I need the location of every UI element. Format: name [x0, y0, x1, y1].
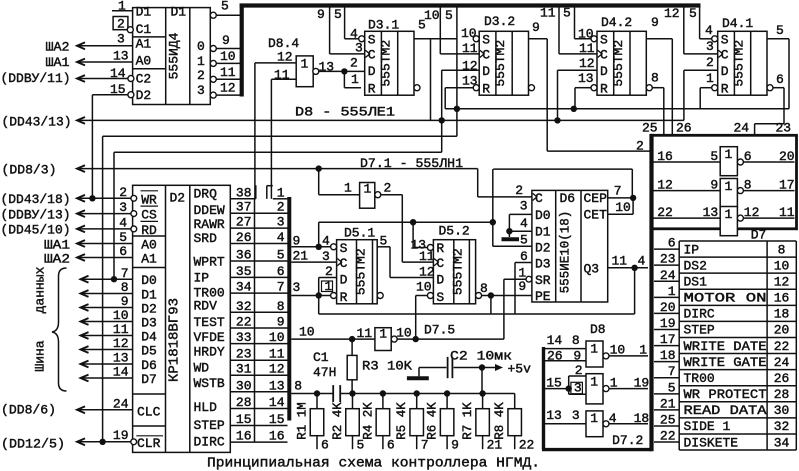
svg-text:R1 1M: R1 1M [296, 402, 310, 440]
svg-text:555ТМ2: 555ТМ2 [379, 40, 394, 87]
svg-text:6: 6 [520, 249, 528, 264]
D7 inverter row 22 [654, 217, 721, 219]
D4.1 S input [712, 36, 718, 42]
svg-text:данных: данных [33, 266, 48, 313]
resistor R3 [351, 339, 353, 355]
table stub 21 [654, 409, 679, 411]
svg-text:13: 13 [703, 205, 719, 220]
D5.1 S input [331, 244, 337, 250]
D4.1 bus drop 12 [683, 8, 685, 54]
data bus wire D5 [81, 346, 89, 353]
svg-text:47Н: 47Н [313, 365, 336, 380]
svg-text:16: 16 [774, 291, 790, 306]
svg-text:D: D [600, 64, 608, 79]
svg-text:23: 23 [660, 252, 676, 267]
D4.2 R input [591, 85, 597, 91]
svg-text:D2: D2 [141, 302, 157, 317]
D6 CET output [608, 213, 633, 215]
D4.1 Q output [767, 38, 789, 40]
D3.1 S input [359, 36, 365, 42]
svg-text:5: 5 [520, 233, 528, 248]
resistor R1 1M [316, 394, 318, 409]
svg-text:12: 12 [774, 274, 790, 289]
svg-text:HRDY: HRDY [194, 345, 225, 360]
svg-text:CLC: CLC [137, 404, 161, 419]
D3.1 C input [365, 50, 369, 57]
svg-text:1: 1 [344, 181, 352, 196]
svg-text:12: 12 [657, 178, 673, 193]
svg-text:D2: D2 [535, 241, 551, 256]
D2 RD pin [131, 226, 137, 232]
svg-text:D5.2: D5.2 [439, 224, 470, 239]
svg-text:RAWR: RAWR [194, 217, 225, 232]
svg-text:R5 4K: R5 4K [395, 402, 409, 440]
D3.2 R input [473, 85, 479, 91]
svg-text:R8 4K: R8 4K [493, 402, 507, 440]
svg-text:8: 8 [121, 280, 129, 295]
gate D7.2 output [609, 423, 648, 425]
svg-text:10: 10 [774, 258, 790, 273]
svg-text:17: 17 [660, 332, 676, 347]
svg-text:1: 1 [324, 279, 332, 294]
svg-text:C: C [535, 191, 543, 206]
svg-text:3: 3 [119, 200, 127, 215]
svg-text:5: 5 [710, 149, 718, 164]
svg-text:18: 18 [774, 307, 790, 322]
svg-text:2: 2 [706, 55, 714, 70]
D3.1 Qbar output [414, 85, 420, 91]
svg-text:DISKETE: DISKETE [684, 435, 739, 450]
svg-text:18: 18 [660, 348, 676, 363]
svg-text:(DD43/13): (DD43/13) [2, 115, 72, 130]
svg-text:555ТМ2: 555ТМ2 [611, 40, 626, 87]
data bus wire D2 [81, 304, 89, 311]
svg-text:13: 13 [113, 49, 129, 64]
svg-text:20: 20 [779, 149, 795, 164]
svg-text:(DDВУ/13): (DDВУ/13) [1, 207, 71, 222]
D6 Q3 output [608, 267, 648, 269]
svg-text:16: 16 [657, 149, 673, 164]
svg-text:9: 9 [651, 15, 659, 30]
svg-text:S: S [340, 241, 348, 256]
svg-text:S: S [436, 290, 444, 305]
svg-text:25: 25 [660, 412, 676, 427]
svg-text:DRQ: DRQ [194, 187, 218, 202]
svg-text:R2 4K: R2 4K [331, 402, 345, 440]
svg-text:D1: D1 [535, 225, 551, 240]
data bus wire D4 [81, 332, 89, 339]
svg-text:S: S [368, 33, 376, 48]
gate D8.4 [296, 56, 313, 87]
D5.1 R input [331, 293, 337, 299]
svg-text:10: 10 [220, 49, 236, 64]
D5.2 Qbar output 8 [476, 293, 482, 299]
svg-text:D5: D5 [141, 344, 157, 359]
svg-text:D4.1: D4.1 [722, 16, 753, 31]
svg-text:10: 10 [424, 8, 440, 23]
decoder D1 555ИД4 [133, 8, 211, 105]
D4.2 C input [598, 50, 602, 57]
D3.1 bus drop 9 [329, 8, 331, 54]
svg-text:0: 0 [197, 39, 205, 54]
svg-text:S: S [721, 33, 729, 48]
table stub 1 [654, 296, 679, 298]
svg-text:D: D [482, 64, 490, 79]
svg-text:9: 9 [451, 438, 459, 453]
svg-text:2: 2 [515, 183, 523, 198]
svg-text:1: 1 [725, 179, 733, 194]
svg-text:26: 26 [547, 349, 563, 364]
table stub 7 [654, 377, 679, 379]
svg-text:CLR: CLR [137, 436, 161, 451]
svg-text:WD: WD [194, 361, 210, 376]
svg-text:17: 17 [779, 178, 795, 193]
svg-text:1: 1 [590, 411, 598, 426]
inverter D7.5 output [397, 338, 504, 340]
svg-text:8: 8 [294, 379, 302, 394]
svg-text:24: 24 [774, 355, 790, 370]
svg-text:12: 12 [579, 56, 595, 71]
junction D5.1 R [316, 292, 322, 298]
svg-text:D8 - 555ЛЕ1: D8 - 555ЛЕ1 [295, 105, 395, 120]
svg-text:4: 4 [119, 215, 127, 230]
svg-text:5: 5 [563, 6, 571, 21]
gate D7.2 input [544, 423, 587, 425]
svg-text:D6: D6 [141, 358, 157, 373]
svg-text:D: D [721, 64, 729, 79]
svg-text:D2: D2 [136, 88, 152, 103]
svg-text:8: 8 [651, 71, 659, 86]
bus thick vertical at D1 outputs [240, 4, 244, 97]
svg-text:19: 19 [634, 376, 650, 391]
svg-text:12: 12 [220, 81, 236, 96]
svg-text:R4 2K: R4 2K [361, 402, 375, 440]
svg-text:DIRC: DIRC [194, 435, 225, 450]
svg-text:25: 25 [642, 121, 658, 136]
D5.1 C input [337, 259, 341, 266]
D2 pin-number ladder line [254, 199, 256, 442]
D1 output 5 [210, 12, 216, 18]
svg-text:9: 9 [222, 33, 230, 48]
svg-text:(DD8/6): (DD8/6) [1, 402, 56, 417]
svg-text:555ИД4: 555ИД4 [167, 32, 182, 79]
svg-text:R: R [368, 82, 376, 97]
svg-text:5: 5 [445, 8, 453, 23]
D4.1 bus drop 5 [699, 8, 701, 39]
svg-text:RD: RD [141, 223, 157, 238]
D1 output 11 [210, 76, 216, 82]
inverter D7.5 input [349, 336, 355, 342]
svg-text:14: 14 [547, 333, 563, 348]
svg-text:13: 13 [462, 74, 478, 89]
svg-text:12: 12 [664, 6, 680, 21]
D3.2 Q output [529, 38, 548, 40]
gate D8 g2 input [544, 388, 569, 390]
svg-text:34: 34 [774, 435, 790, 450]
svg-text:30: 30 [774, 403, 790, 418]
D5.2 S input [427, 293, 433, 299]
D7 inverter row 16 [654, 161, 721, 163]
svg-text:2: 2 [119, 185, 127, 200]
svg-text:6: 6 [776, 72, 784, 87]
svg-text:555ТМ2: 555ТМ2 [451, 248, 466, 295]
feedback line Q3 [319, 313, 635, 315]
svg-text:C2: C2 [136, 72, 152, 87]
data bus wire D3 [81, 318, 89, 325]
D3.1 Q output [414, 38, 457, 40]
svg-text:S: S [482, 33, 490, 48]
svg-text:TEST: TEST [194, 315, 225, 330]
svg-text:C1: C1 [313, 350, 329, 365]
svg-text:DS2: DS2 [684, 258, 707, 273]
svg-text:CEP: CEP [584, 191, 608, 206]
svg-text:3: 3 [574, 381, 582, 396]
svg-text:7: 7 [614, 183, 622, 198]
table stub 23 [654, 264, 679, 266]
D5.1 Q output [377, 246, 390, 248]
flip-flop D3.2 555ТМ2 [479, 31, 528, 95]
svg-text:19: 19 [113, 428, 129, 443]
svg-text:S: S [600, 33, 608, 48]
svg-text:21: 21 [660, 396, 676, 411]
svg-text:5: 5 [380, 233, 388, 248]
D4.1 C input [718, 50, 722, 57]
svg-text:2: 2 [325, 264, 333, 279]
D2 WR pin [131, 195, 137, 201]
svg-text:7: 7 [668, 364, 676, 379]
svg-text:MOTOR ON: MOTOR ON [684, 291, 767, 306]
svg-text:8: 8 [480, 281, 488, 296]
D4.1 D input [684, 69, 718, 71]
buffer block D7 border [652, 135, 797, 229]
svg-text:Q3: Q3 [584, 262, 600, 277]
svg-text:Принципиальная схема контрол: Принципиальная схема контроллера НГМД. [207, 456, 540, 471]
D4.1 R input [712, 85, 718, 91]
svg-text:WRITE DATE: WRITE DATE [684, 339, 767, 354]
inverter D7.5 [375, 328, 391, 351]
svg-text:HLD: HLD [194, 400, 218, 415]
svg-text:D1: D1 [171, 4, 187, 19]
svg-text:R: R [721, 82, 729, 97]
resistor R2 4K [352, 394, 354, 409]
svg-text:A1: A1 [141, 252, 157, 267]
svg-text:555ИЕ10(18): 555ИЕ10(18) [558, 211, 572, 294]
D3.2 D input [442, 69, 480, 71]
wire D8.4 input12 to DRQ [254, 63, 256, 199]
svg-text:24: 24 [113, 396, 129, 411]
svg-text:D7.5: D7.5 [424, 323, 455, 338]
svg-text:(DD45/10): (DD45/10) [1, 223, 71, 238]
D4.2 S input [591, 36, 597, 42]
svg-text:3: 3 [520, 199, 528, 214]
svg-text:19: 19 [660, 316, 676, 331]
inverter D7.1 output [381, 194, 403, 196]
svg-text:13: 13 [578, 71, 594, 86]
svg-text:IP: IP [194, 271, 210, 286]
data bus wire D1 [81, 290, 89, 297]
svg-text:7: 7 [121, 266, 129, 281]
svg-text:12: 12 [277, 50, 293, 65]
svg-text:18: 18 [634, 411, 650, 426]
svg-text:28: 28 [774, 387, 790, 402]
counter D6 555ИЕ10(18) [532, 190, 608, 302]
svg-text:1: 1 [725, 147, 733, 162]
svg-text:11: 11 [779, 205, 795, 220]
junction D5.1 S [316, 244, 322, 250]
svg-text:3: 3 [572, 408, 580, 423]
svg-text:555ТМ2: 555ТМ2 [732, 40, 747, 87]
flip-flop D5.2 555ТМ2 [433, 240, 475, 304]
svg-text:4: 4 [322, 233, 330, 248]
svg-text:SR: SR [535, 273, 551, 288]
svg-text:D6: D6 [560, 191, 576, 206]
svg-text:10: 10 [610, 343, 626, 358]
gate D8 g2 [586, 374, 603, 404]
wire D0 riser [113, 152, 115, 279]
svg-text:13: 13 [113, 351, 129, 366]
svg-text:9: 9 [710, 178, 718, 193]
svg-text:11: 11 [274, 68, 290, 83]
svg-text:D3.2: D3.2 [484, 14, 515, 29]
svg-text:C2 10мк: C2 10мк [450, 349, 512, 364]
svg-text:D0: D0 [535, 208, 551, 223]
svg-text:555ТМ2: 555ТМ2 [354, 248, 369, 295]
flip-flop D4.2 555ТМ2 [597, 31, 646, 95]
inverter D7.1 [360, 183, 375, 209]
svg-text:10: 10 [615, 200, 631, 215]
svg-text:11: 11 [579, 41, 595, 56]
svg-text:C1: C1 [136, 22, 152, 37]
svg-text:4: 4 [705, 23, 713, 38]
svg-text:1: 1 [301, 57, 309, 72]
svg-text:D4.2: D4.2 [601, 15, 632, 30]
svg-text:1: 1 [118, 0, 126, 14]
svg-text:9: 9 [317, 7, 325, 22]
svg-text:24: 24 [660, 268, 676, 283]
resistor R6 4K [446, 394, 448, 409]
gate block D8/D7.2 border [542, 347, 545, 450]
svg-text:11: 11 [419, 249, 435, 264]
D6 CEP output [608, 197, 633, 199]
junction D0 to gate net [111, 276, 117, 282]
data bus wire D0 [81, 276, 89, 283]
connector cable bar [287, 197, 291, 421]
flip-flop D4.1 555ТМ2 [718, 31, 767, 95]
svg-text:32: 32 [774, 419, 790, 434]
wire D1 pin15 to WR net [91, 95, 93, 199]
svg-text:ША1: ША1 [46, 55, 70, 70]
svg-text:ША1: ША1 [44, 238, 70, 253]
ground at C2 [418, 368, 420, 377]
+5v arrow [495, 364, 503, 371]
flip-flop D5.1 555ТМ2 [337, 240, 378, 304]
svg-text:13: 13 [319, 60, 335, 75]
svg-text:STEP: STEP [194, 418, 225, 433]
svg-text:5: 5 [334, 7, 342, 22]
svg-text:6: 6 [387, 438, 395, 453]
svg-text:11: 11 [540, 6, 556, 21]
svg-text:22: 22 [660, 429, 676, 444]
svg-text:R3 10K: R3 10K [362, 359, 412, 374]
D4.2 D input [558, 69, 598, 71]
svg-text:D7.2: D7.2 [612, 433, 643, 448]
svg-text:5: 5 [119, 230, 127, 245]
svg-text:12: 12 [744, 205, 760, 220]
svg-text:ША2: ША2 [46, 40, 70, 55]
gate D8.4 inputs [255, 62, 296, 64]
svg-text:9: 9 [532, 20, 540, 35]
svg-text:10: 10 [299, 325, 315, 340]
svg-text:D1: D1 [141, 288, 157, 303]
gate D8 g1 [586, 341, 603, 367]
D4.2 Q output [646, 38, 672, 40]
D5.1 Qbar output [377, 293, 383, 299]
svg-text:1: 1 [668, 284, 676, 299]
svg-text:(DDВУ/11): (DDВУ/11) [1, 71, 71, 86]
svg-text:D3.1: D3.1 [368, 18, 399, 33]
svg-text:20: 20 [660, 300, 676, 315]
svg-text:D: D [368, 64, 376, 79]
ground at D6 [502, 237, 520, 241]
svg-text:TR00: TR00 [684, 371, 715, 386]
svg-text:9: 9 [573, 349, 581, 364]
svg-text:R: R [340, 290, 348, 305]
svg-text:R: R [600, 82, 608, 97]
wire DD8/3 jog to D6 C [477, 169, 479, 197]
table stub 24 [654, 280, 679, 282]
gate D7.2 [586, 411, 603, 437]
D5.1 D input [319, 277, 337, 279]
svg-text:D7.1 - 555ЛН1: D7.1 - 555ЛН1 [360, 156, 463, 171]
svg-text:1: 1 [610, 376, 618, 391]
inverter D7.1 input [318, 169, 320, 195]
D5.2 R input [427, 245, 433, 251]
svg-text:11: 11 [113, 322, 129, 337]
svg-text:6: 6 [668, 236, 676, 251]
svg-text:1: 1 [351, 72, 359, 87]
svg-text:20: 20 [774, 323, 790, 338]
svg-text:D: D [340, 272, 348, 287]
svg-text:3: 3 [117, 32, 125, 47]
svg-text:WPRT: WPRT [194, 255, 225, 270]
svg-text:26: 26 [774, 371, 790, 386]
svg-text:R: R [436, 241, 444, 256]
svg-text:D4: D4 [141, 330, 157, 345]
svg-text:PE: PE [535, 289, 551, 304]
table stub 17 [654, 345, 679, 347]
gate D8 g1 output [609, 355, 648, 357]
svg-text:8: 8 [572, 333, 580, 348]
svg-text:11: 11 [462, 41, 478, 56]
D8.4 output wire [319, 70, 365, 72]
svg-text:15: 15 [546, 376, 562, 391]
svg-text:1: 1 [590, 342, 598, 357]
svg-text:4: 4 [520, 216, 528, 231]
svg-text:D8.4: D8.4 [268, 36, 299, 51]
svg-text:5: 5 [221, 0, 229, 14]
RC rail [340, 393, 515, 395]
svg-text:13: 13 [546, 408, 562, 423]
svg-text:4: 4 [609, 411, 617, 426]
svg-text:1: 1 [590, 375, 598, 390]
output cable bar [649, 134, 653, 451]
svg-text:CET: CET [584, 208, 608, 223]
D3.2 Qbar output [529, 85, 535, 91]
resistor R4 2K [382, 394, 384, 409]
svg-text:STEP: STEP [684, 323, 715, 338]
D6 C input [533, 193, 537, 200]
svg-text:10: 10 [416, 280, 432, 295]
